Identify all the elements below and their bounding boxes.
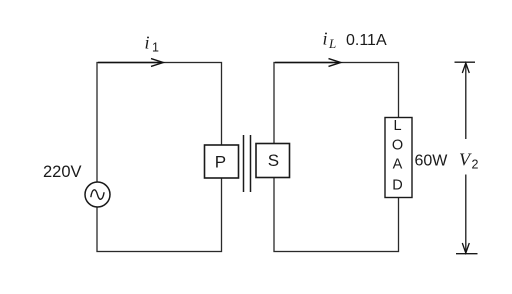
svg-text:P: P [215,153,226,172]
voltage label V2 [459,149,479,171]
svg-text:A: A [393,157,403,173]
current arrow iL [275,59,341,67]
svg-text:V: V [459,149,472,169]
load value 60W [415,152,449,169]
wire: primary loop rectangle [97,63,222,252]
svg-text:S: S [268,151,279,170]
svg-text:2: 2 [472,158,479,172]
svg-text:L: L [328,36,336,51]
svg-text:220V: 220V [43,163,82,181]
load box LOAD [385,118,412,198]
current arrow i1 [98,59,163,67]
svg-text:60W: 60W [415,152,449,169]
svg-text:O: O [392,137,403,153]
current label iL 0.11A [323,29,387,52]
ac source 220V [85,182,110,207]
current label i1 [145,33,160,55]
transformer primary winding box P [205,145,239,178]
value label 220V [43,163,82,181]
svg-text:D: D [392,178,402,194]
transformer core [244,135,251,192]
svg-text:i: i [323,29,328,49]
svg-text:0.11A: 0.11A [346,32,387,49]
wire: secondary loop rectangle [274,63,399,252]
svg-text:i: i [145,33,150,53]
transformer secondary winding box S [256,144,290,178]
svg-text:L: L [393,118,401,134]
svg-text:1: 1 [152,41,159,55]
dimension line V2 with arrows [455,62,478,254]
